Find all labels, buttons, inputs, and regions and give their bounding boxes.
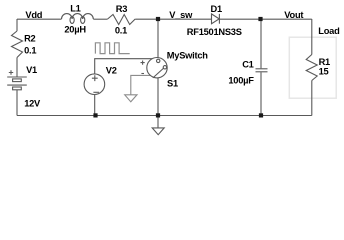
svg-text:0.1: 0.1 xyxy=(24,46,36,56)
svg-text:V_sw: V_sw xyxy=(169,10,193,20)
svg-text:R2: R2 xyxy=(24,34,35,44)
svg-text:RF1501NS3S: RF1501NS3S xyxy=(187,27,242,37)
svg-text:Vout: Vout xyxy=(284,10,303,20)
svg-text:V1: V1 xyxy=(26,65,37,75)
svg-text:V2: V2 xyxy=(106,66,117,76)
svg-text:Load: Load xyxy=(318,26,340,36)
svg-text:100µF: 100µF xyxy=(228,75,254,85)
svg-text:D1: D1 xyxy=(211,4,222,14)
svg-text:R3: R3 xyxy=(116,4,127,14)
svg-text:C1: C1 xyxy=(242,59,253,69)
svg-text:L1: L1 xyxy=(70,3,80,13)
svg-text:20µH: 20µH xyxy=(64,24,86,34)
svg-text:15: 15 xyxy=(319,67,329,77)
svg-text:0.1: 0.1 xyxy=(115,26,127,36)
svg-text:S1: S1 xyxy=(167,79,178,89)
svg-text:Vdd: Vdd xyxy=(25,10,42,20)
svg-text:R1: R1 xyxy=(319,57,330,67)
svg-text:MySwitch: MySwitch xyxy=(167,51,208,61)
svg-text:12V: 12V xyxy=(24,99,41,109)
